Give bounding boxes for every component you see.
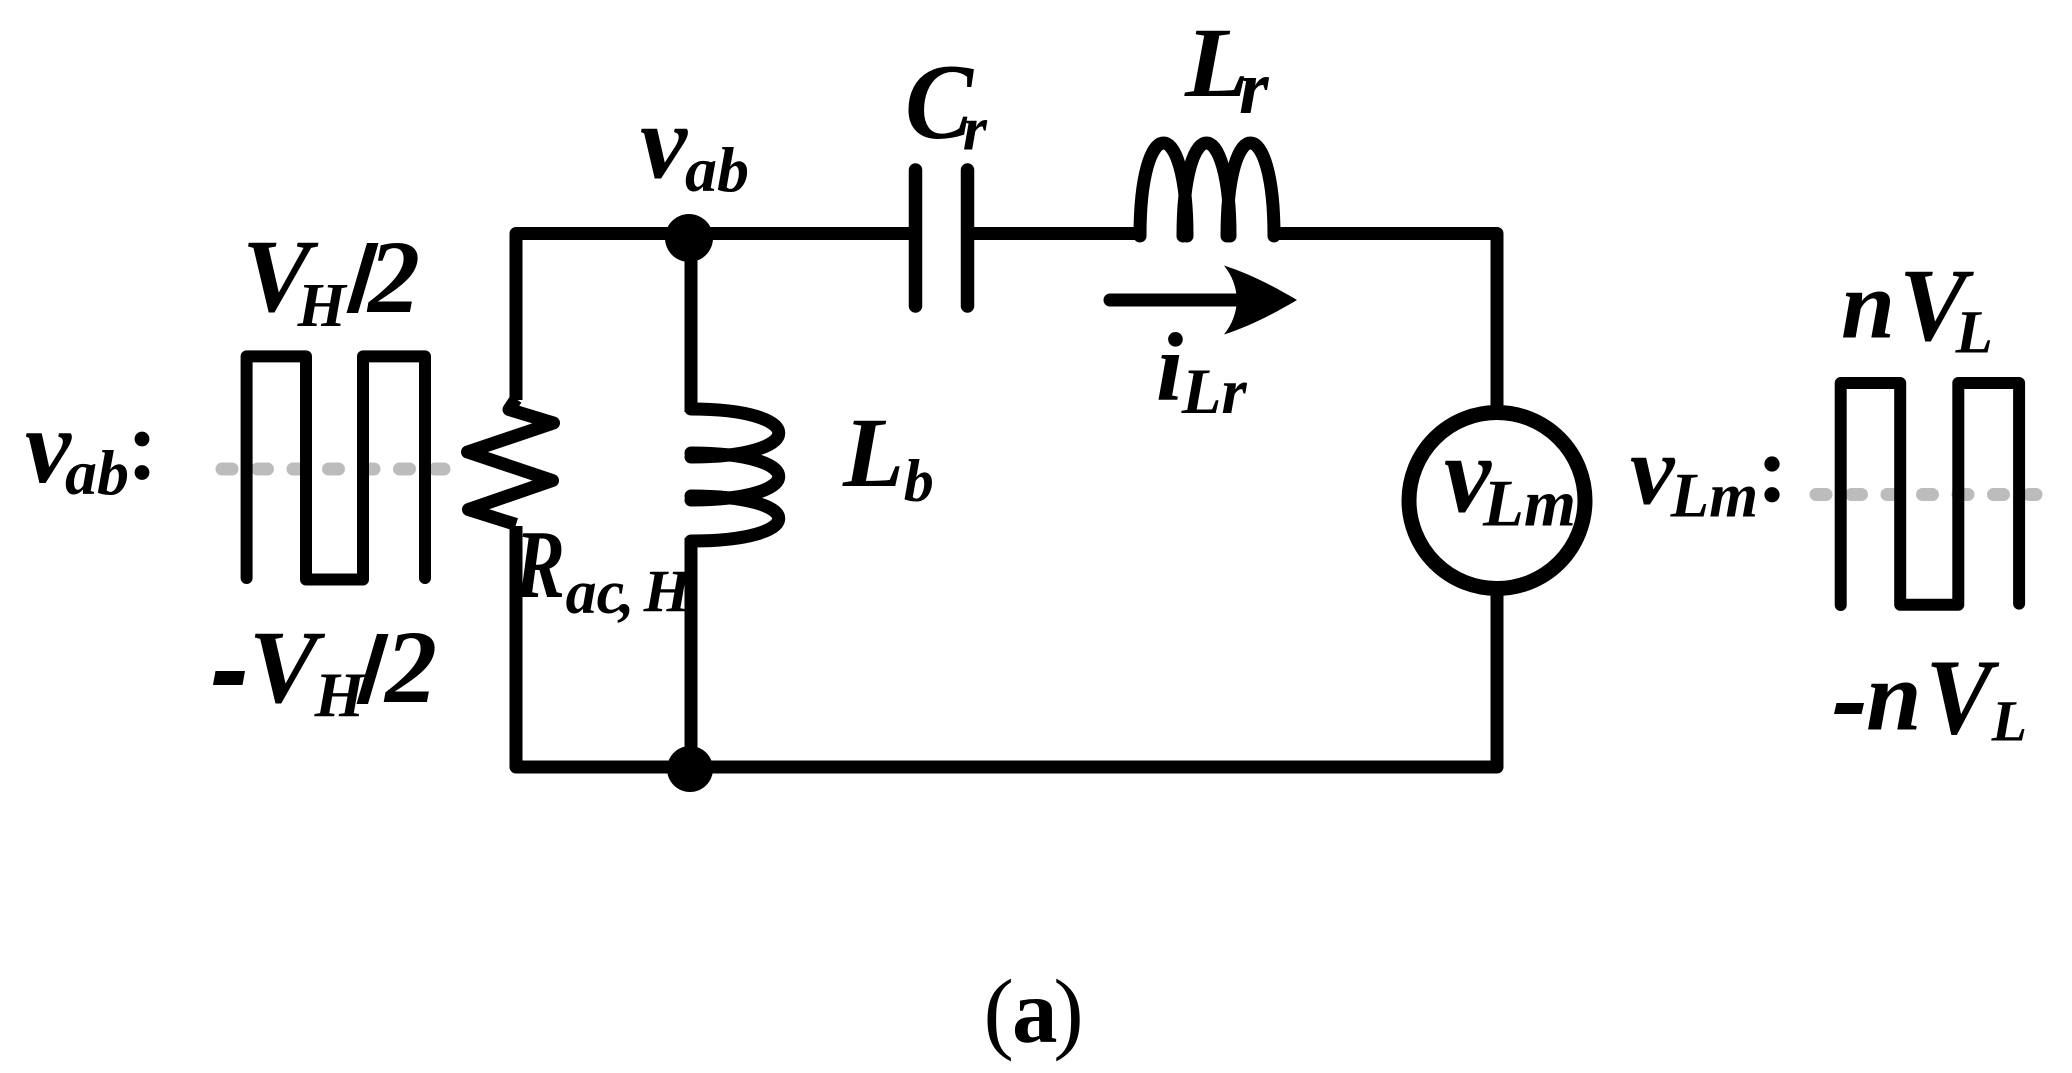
v_ab waveform zero-axis dashed line [222, 463, 444, 476]
wire: node to capacitor [689, 227, 912, 240]
v_ab square waveform [247, 356, 425, 579]
label -nV_L [1834, 639, 2027, 758]
svg-text:R: R [514, 511, 565, 619]
caption (a) [984, 961, 1084, 1062]
label V_H/2 [242, 219, 420, 340]
svg-text:L: L [842, 397, 904, 508]
svg-text:): ) [1053, 961, 1083, 1062]
svg-text:v: v [1630, 415, 1676, 526]
label -V_H/2 [213, 610, 437, 730]
svg-text:n: n [1866, 641, 1922, 752]
label L_r [1184, 7, 1270, 130]
label C_r [905, 43, 988, 164]
svg-text:2: 2 [366, 220, 420, 335]
svg-text:Lr: Lr [1181, 356, 1248, 428]
node v_ab (top junction dot) [665, 214, 713, 262]
svg-text:v: v [640, 84, 688, 201]
wire: source to bottom-right corner to bottom node [690, 588, 1497, 767]
label R_ac,H [514, 511, 692, 627]
v_Lm square waveform [1841, 383, 2019, 605]
label v_ab: (left waveform name) [25, 388, 149, 508]
source circle v_Lm [1409, 413, 1585, 589]
svg-text:(: ( [984, 961, 1014, 1062]
wire: inductor Lr to top-right corner, down to source [1273, 234, 1497, 414]
svg-text:2: 2 [383, 610, 437, 725]
current arrow i_Lr [1110, 266, 1297, 335]
svg-text:V: V [1926, 639, 2000, 758]
label L_b [842, 397, 934, 514]
svg-text:a: a [1012, 961, 1058, 1062]
svg-text:H: H [297, 272, 348, 340]
resistor R_ac,H zigzag [468, 399, 554, 525]
label v_ab (node name) [640, 84, 749, 206]
svg-text:L: L [1991, 689, 2027, 754]
node bottom junction dot [667, 746, 713, 792]
svg-text:H: H [314, 659, 367, 730]
svg-text:r: r [963, 96, 988, 164]
wire: capacitor to inductor Lr [971, 227, 1141, 240]
wire: inductor Lb to bottom node [685, 538, 698, 764]
wire: bottom node to bottom-left corner up to resistor [516, 526, 690, 767]
inductor Lb (three right bumps) [691, 409, 779, 541]
svg-text:Lm: Lm [1482, 467, 1576, 541]
svg-text:r: r [1239, 46, 1270, 130]
label nV_L [1841, 248, 1993, 367]
wire: node to inductor Lb [685, 240, 698, 412]
svg-text:n: n [1841, 252, 1895, 359]
svg-text:i: i [1156, 314, 1183, 422]
inductor Lr (three humps) [1140, 143, 1274, 236]
svg-text:ac: ac [566, 559, 625, 627]
svg-text:Lm: Lm [1670, 461, 1759, 531]
capacitor C_r left plate [909, 170, 923, 306]
wire: top-left from resistor branch to node [516, 234, 689, 401]
label v_Lm: (right waveform name) [1630, 415, 1780, 531]
v_Lm waveform zero-axis dashed line [1816, 488, 2036, 501]
svg-text:ab: ab [685, 134, 749, 205]
svg-text:,: , [617, 559, 635, 627]
svg-text:b: b [904, 448, 934, 514]
svg-text:ab: ab [65, 437, 129, 508]
label v_Lm (inside source) [1444, 414, 1576, 541]
capacitor C_r right plate [961, 170, 975, 306]
label i_Lr [1156, 314, 1247, 429]
svg-text:L: L [1955, 300, 1993, 367]
